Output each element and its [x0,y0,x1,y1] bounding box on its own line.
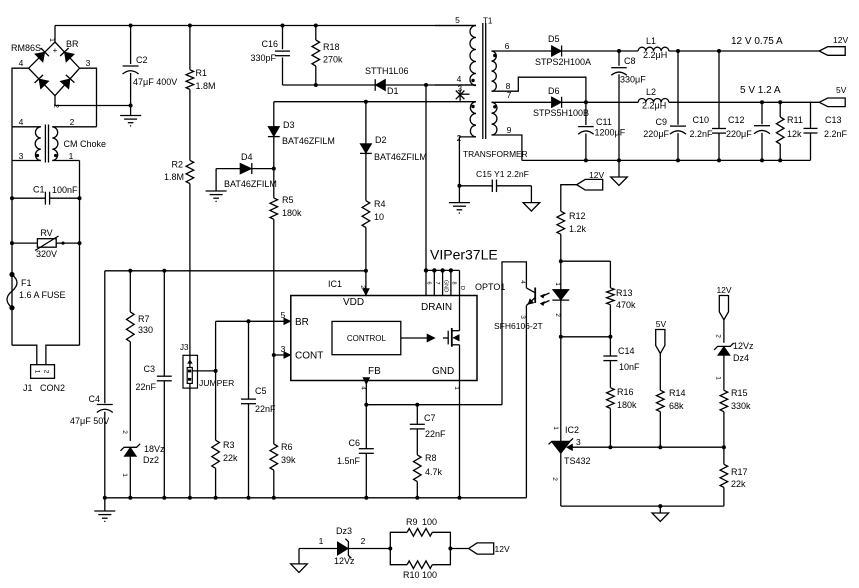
svg-text:R13: R13 [616,288,633,298]
LED light arrows [540,293,549,306]
wire bridge AC right [80,68,97,127]
svg-text:JUMPER: JUMPER [199,378,234,388]
capacitor C7 22nF [410,405,446,455]
svg-text:D5: D5 [548,34,560,44]
drain pin labels [426,280,466,292]
node 5V / C11 [584,100,588,104]
svg-text:4: 4 [19,58,24,68]
svg-text:J3: J3 [180,343,189,352]
svg-text:180k: 180k [282,208,302,218]
resistor R8 4.7k [414,453,443,498]
node J3 / R3 [214,369,218,373]
svg-text:OPTO1: OPTO1 [475,282,505,292]
wire R1 to R2 [189,89,191,160]
svg-text:CM Choke: CM Choke [64,139,107,149]
svg-text:C11: C11 [596,117,612,127]
node pin2 gnd / C15 [457,184,461,188]
arrow gate [427,334,435,342]
svg-text:1: 1 [69,151,74,161]
svg-text:C15 Y1 2.2nF: C15 Y1 2.2nF [476,169,529,179]
svg-text:1: 1 [48,38,55,42]
svg-text:100: 100 [422,517,437,527]
svg-text:1.6 A FUSE: 1.6 A FUSE [19,290,66,300]
svg-text:CON2: CON2 [40,383,65,393]
inductor L1 2.2uH [638,36,669,60]
wire control to gate [401,337,427,339]
svg-text:22k: 22k [731,479,746,489]
label 5V 1.2A [740,85,781,96]
svg-text:2.2μH: 2.2μH [642,101,666,111]
wire J1 right lead [46,345,80,365]
wire R12-R13 link [561,260,611,262]
wire primary ground rail [105,497,527,499]
diode D5 STPS2H100A [535,34,591,67]
ground earth primary [449,203,470,213]
wire R7 to Dz2 [129,342,131,441]
svg-text:1.5nF: 1.5nF [337,456,361,466]
wire FB vertical [365,381,367,405]
svg-text:2: 2 [551,477,558,481]
resistor R1 1.8M [186,26,215,92]
svg-text:270k: 270k [323,55,343,65]
svg-text:1: 1 [715,376,722,380]
node R9R10 right [448,547,452,551]
wire VDD drop [365,271,367,296]
svg-text:100nF: 100nF [52,185,78,195]
node ref / R15 / R17 [722,445,726,449]
svg-text:47μF 50V: 47μF 50V [70,416,109,426]
wire D5 out [562,50,639,52]
capacitor C2 [123,26,178,106]
wire aux line [274,101,476,103]
node bridge minus / C2 [129,104,133,108]
node top rail / C16 [281,24,285,28]
wire drain vertical [425,85,427,270]
svg-text:1.8M: 1.8M [196,81,216,91]
node top rail / R18 [314,24,318,28]
svg-text:R2: R2 [171,160,183,170]
resistor R16 180k [607,387,637,447]
node sec rail C12 [760,158,764,162]
svg-text:6: 6 [505,41,510,51]
svg-text:1: 1 [319,536,324,546]
resistor R11 12k [776,102,802,160]
wire bias line [105,270,366,272]
wire bridge minus line [55,105,131,107]
resistor R13 470k [607,261,636,337]
svg-text:CONTROL: CONTROL [347,334,387,343]
capacitor C9 220uF [643,51,686,160]
wire pin7 line [492,101,552,103]
svg-text:C12: C12 [728,115,745,125]
svg-text:12V: 12V [589,170,604,180]
node rail Dz2 [128,496,132,500]
svg-text:C3: C3 [143,364,155,374]
wire ref line [610,446,724,448]
svg-text:5V: 5V [836,85,847,95]
svg-text:2: 2 [359,285,366,289]
svg-text:C1: C1 [33,185,45,195]
wire X line left [11,127,13,345]
resistor R6 39k [270,355,296,498]
svg-text:BR: BR [295,317,309,328]
pin number 5 BR [281,310,286,320]
capacitor C1 [10,185,82,205]
wire pin9 link [492,135,522,160]
node rail R8 [415,496,419,500]
svg-text:R11: R11 [787,115,803,125]
wire bridge bottom stub [54,96,56,106]
capacitor C3 22nF [135,271,171,498]
pin arrow VDD [363,289,370,296]
capacitor C14 10nF [603,337,640,388]
svg-text:4: 4 [360,386,367,390]
node FB line [364,403,368,407]
wire bridge top stub [54,26,56,43]
svg-text:R1: R1 [196,68,208,78]
node sec rail C10 [717,158,721,162]
svg-text:C9: C9 [655,117,667,127]
node R13 / C14 [608,335,612,339]
diode D6 STPS5H100B [533,86,589,118]
capacitor C6 1.5nF [337,405,374,498]
svg-text:GND: GND [442,280,448,292]
svg-text:3: 3 [281,344,286,354]
svg-text:C4: C4 [88,394,100,404]
wire 5V rail [669,101,819,103]
svg-text:R3: R3 [223,440,235,450]
svg-text:8: 8 [451,281,457,284]
svg-text:3: 3 [519,315,526,319]
svg-text:18Vz: 18Vz [144,444,165,454]
svg-text:4: 4 [19,117,24,127]
svg-text:D3: D3 [283,120,295,130]
svg-text:BR: BR [66,39,79,49]
svg-text:9: 9 [507,125,512,135]
svg-text:330μF: 330μF [620,75,646,85]
svg-text:D6: D6 [548,86,560,96]
svg-text:T1: T1 [483,17,493,26]
node 5V / R11 [778,100,782,104]
node R12 / LED / R13 [559,259,563,263]
svg-text:2.2μH: 2.2μH [643,50,667,60]
svg-text:12Vz: 12Vz [334,556,355,566]
transistor Q1 mosfet [443,296,460,381]
wire snubber bottom [283,84,376,86]
capacitor C10 2.2nF [689,51,726,160]
wire D1 to drain node [386,84,477,86]
svg-text:C6: C6 [348,438,360,448]
svg-text:FB: FB [368,366,381,377]
svg-text:IC1: IC1 [328,279,342,289]
wire Dz3 to R9R10 [348,548,390,550]
wire top HV rail [55,25,476,27]
svg-text:IC2: IC2 [565,425,579,435]
wire LED top [560,261,562,289]
IC title VIPer37LE [430,247,498,263]
bridge rectifier BR RM86S [11,38,91,108]
ground chassis bottom [291,549,308,573]
svg-text:BAT46ZFILM: BAT46ZFILM [282,136,335,146]
node aux line / D2 [364,100,368,104]
wire 12V sense drop [723,320,725,343]
wire J3 below [189,389,191,498]
svg-text:5: 5 [455,15,460,25]
svg-text:RM86S: RM86S [11,43,41,53]
svg-text:D1: D1 [387,86,399,96]
svg-text:C2: C2 [136,55,148,65]
diode D1 STTH1L06 [365,66,409,96]
node 12V / C8 [617,49,621,53]
svg-text:2: 2 [554,313,561,317]
svg-text:12V: 12V [716,285,731,295]
svg-text:C16: C16 [261,39,278,49]
wire pin6 line [492,50,552,52]
svg-text:J1: J1 [23,383,33,393]
ground chassis feedback [652,513,669,522]
resistor R5 180k [270,169,302,355]
svg-text:22nF: 22nF [255,404,276,414]
resistor R17 22k [720,447,747,506]
connector 12V sense [716,285,731,320]
no-connect pin 3 [456,85,470,102]
resistor R4 10 [362,199,385,271]
node LED cathode [559,335,563,339]
transformer T1 [435,15,528,159]
wire fb ground line [561,505,724,507]
node ref / R14 [658,445,662,449]
node drain bar 4 [449,268,453,272]
svg-text:3: 3 [19,151,24,161]
wire C15 to chassis [530,186,532,203]
svg-text:1: 1 [453,386,460,390]
wire BR line [216,320,287,322]
diode D3 BAT46ZFILM [268,120,335,169]
wire 12V stub to R12 [561,185,577,212]
zener Dz2 18Vz [121,430,166,498]
resistor R12 1.2k [557,211,587,261]
svg-text:6: 6 [426,281,432,284]
pin number 3 CONT [281,344,286,354]
svg-text:470k: 470k [616,300,636,310]
node rail J3 [188,496,192,500]
svg-text:2: 2 [70,117,75,127]
svg-text:4: 4 [457,74,462,84]
CONTROL block [332,321,401,354]
svg-text:47μF 400V: 47μF 400V [133,77,177,87]
svg-text:12V: 12V [495,544,510,554]
optocoupler OPTO1 SFH6106-2T [475,262,543,498]
resistor R2 1.8M [164,160,194,184]
node rail C6 [364,496,368,500]
capacitor C4 47uF 50V [70,271,113,498]
svg-text:R15: R15 [731,388,748,398]
svg-text:330: 330 [138,325,153,335]
shunt regulator IC2 TS432 [549,425,611,506]
wire R2 to J3 [189,184,191,356]
svg-text:4.7k: 4.7k [425,467,443,477]
svg-text:10nF: 10nF [619,362,640,372]
wire to 12V aux connector [450,548,468,550]
svg-text:R10: R10 [403,570,420,580]
svg-text:320V: 320V [36,249,57,259]
diode D2 BAT46ZFILM [360,102,427,201]
node sec rail R11 [778,158,782,162]
svg-text:TS432: TS432 [564,456,591,466]
ground earth below C2 [120,116,141,126]
svg-text:2: 2 [43,370,50,374]
svg-text:BAT46ZFILM: BAT46ZFILM [374,152,427,162]
node sec rail C11 [584,158,588,162]
svg-text:C8: C8 [624,56,636,66]
svg-text:3: 3 [86,58,91,68]
svg-text:CONT: CONT [295,351,323,362]
wire TS432 cathode [560,337,562,442]
node 12V / C9 [676,49,680,53]
node FB line / C7 [415,403,419,407]
svg-text:TRANSFORMER: TRANSFORMER [463,149,528,159]
svg-text:3: 3 [576,437,581,447]
svg-text:STPS5H100B: STPS5H100B [533,108,589,118]
svg-text:R17: R17 [731,467,748,477]
node bias / R7 [128,269,132,273]
svg-text:RV: RV [40,228,52,238]
svg-text:1: 1 [34,370,41,374]
wire BR vertical [215,321,217,440]
svg-text:F1: F1 [21,278,32,288]
svg-text:R18: R18 [323,42,340,52]
svg-text:12k: 12k [787,129,802,139]
svg-text:5 V 1.2 A: 5 V 1.2 A [740,85,781,96]
svg-text:C10: C10 [692,115,709,125]
wire bridge AC left [12,68,29,127]
svg-text:1.2k: 1.2k [569,224,587,234]
wire gnd to Dz3 [299,536,337,549]
svg-text:1: 1 [552,426,559,430]
wire aux to D3 [273,102,275,120]
svg-text:12Vz: 12Vz [733,341,754,351]
wire 12V rail [669,50,819,52]
ground chassis below C15 [523,203,540,212]
node bias / C3 [162,269,166,273]
node snubber / R18 [314,83,318,87]
diode D4 BAT46ZFILM [216,152,277,189]
svg-text:68k: 68k [669,401,684,411]
pin arrow BR [284,318,291,325]
svg-text:12 V 0.75 A: 12 V 0.75 A [731,36,783,47]
svg-text:R4: R4 [374,199,386,209]
node sec rail C8 [617,158,621,162]
svg-text:39k: 39k [281,455,296,465]
svg-text:22nF: 22nF [425,429,446,439]
svg-text:Dz2: Dz2 [143,455,159,465]
svg-text:STPS2H100A: STPS2H100A [535,57,591,67]
svg-text:330k: 330k [731,401,751,411]
svg-text:7: 7 [434,281,440,284]
svg-text:Dz4: Dz4 [733,353,749,363]
zener Dz3 12Vz [334,526,366,566]
connector 12V feedback [577,170,605,190]
node VDD line [364,269,368,273]
node fb ground [658,504,662,508]
svg-text:22k: 22k [223,453,238,463]
wire FB line [366,404,502,406]
ground earth primary rail [94,511,115,521]
svg-text:330pF: 330pF [250,53,276,63]
svg-text:C13: C13 [825,115,842,125]
svg-text:2: 2 [361,536,366,546]
connector 5V sense [656,319,667,354]
svg-text:D: D [459,286,465,290]
svg-text:C5: C5 [255,386,267,396]
svg-text:220μF: 220μF [726,129,752,139]
node top rail / R1 [188,24,192,28]
inductor L2 2.2uH [638,87,669,111]
wire J1 left lead [12,345,37,365]
svg-text:VDD: VDD [343,297,364,308]
svg-text:2: 2 [715,334,722,338]
svg-text:180k: 180k [617,400,637,410]
wire fb ground stub [659,506,661,513]
node 5V / C12 [760,100,764,104]
node BR / C5 [247,319,251,323]
node D3 / D4 / R5 [272,167,276,171]
pin arrow CONT [284,352,291,359]
capacitor C12 220uF [726,102,770,160]
svg-text:2.2nF: 2.2nF [689,129,713,139]
svg-text:1: 1 [121,473,128,477]
node CONT / R5R6 [272,353,276,357]
svg-text:1200μF: 1200μF [595,128,626,138]
wire pin2 to ground [459,137,476,186]
wire D4 anode stub [215,169,217,191]
capacitor C8 330uF [611,51,646,160]
svg-text:100: 100 [422,570,437,580]
ground chassis secondary [611,177,628,186]
node 12V / C10 [717,49,721,53]
svg-text:D4: D4 [241,152,253,162]
CM Choke [12,117,106,163]
svg-text:4: 4 [519,280,526,284]
svg-text:STTH1L06: STTH1L06 [365,66,409,76]
wire secondary ground rail [522,159,811,161]
svg-text:5V: 5V [656,319,667,329]
resistor R7 330 [127,271,154,342]
svg-text:C7: C7 [424,413,436,423]
node drain bar 2 [432,268,436,272]
svg-text:L2: L2 [646,87,656,97]
capacitor C5 22nF [241,321,276,498]
capacitor C11 1200uF [578,102,626,160]
jumper J3 [180,343,234,389]
resistor R14 68k [657,354,686,448]
LED opto diode [552,282,569,337]
wire pin8 link [492,77,586,102]
svg-text:C14: C14 [618,346,635,356]
node ref / R16 [608,445,612,449]
svg-text:2.2nF: 2.2nF [824,129,848,139]
node top rail / C2 [129,24,133,28]
wire pin2 gnd stub [458,186,460,203]
wire rail ground stub [104,498,106,511]
resistor R10 100 [390,549,450,581]
svg-text:L1: L1 [646,36,656,46]
wire D6 out [562,101,639,103]
svg-text:R9: R9 [406,517,418,527]
wire CONT line [274,354,287,356]
ground earth below D4 [206,191,227,201]
svg-text:R6: R6 [281,442,293,452]
